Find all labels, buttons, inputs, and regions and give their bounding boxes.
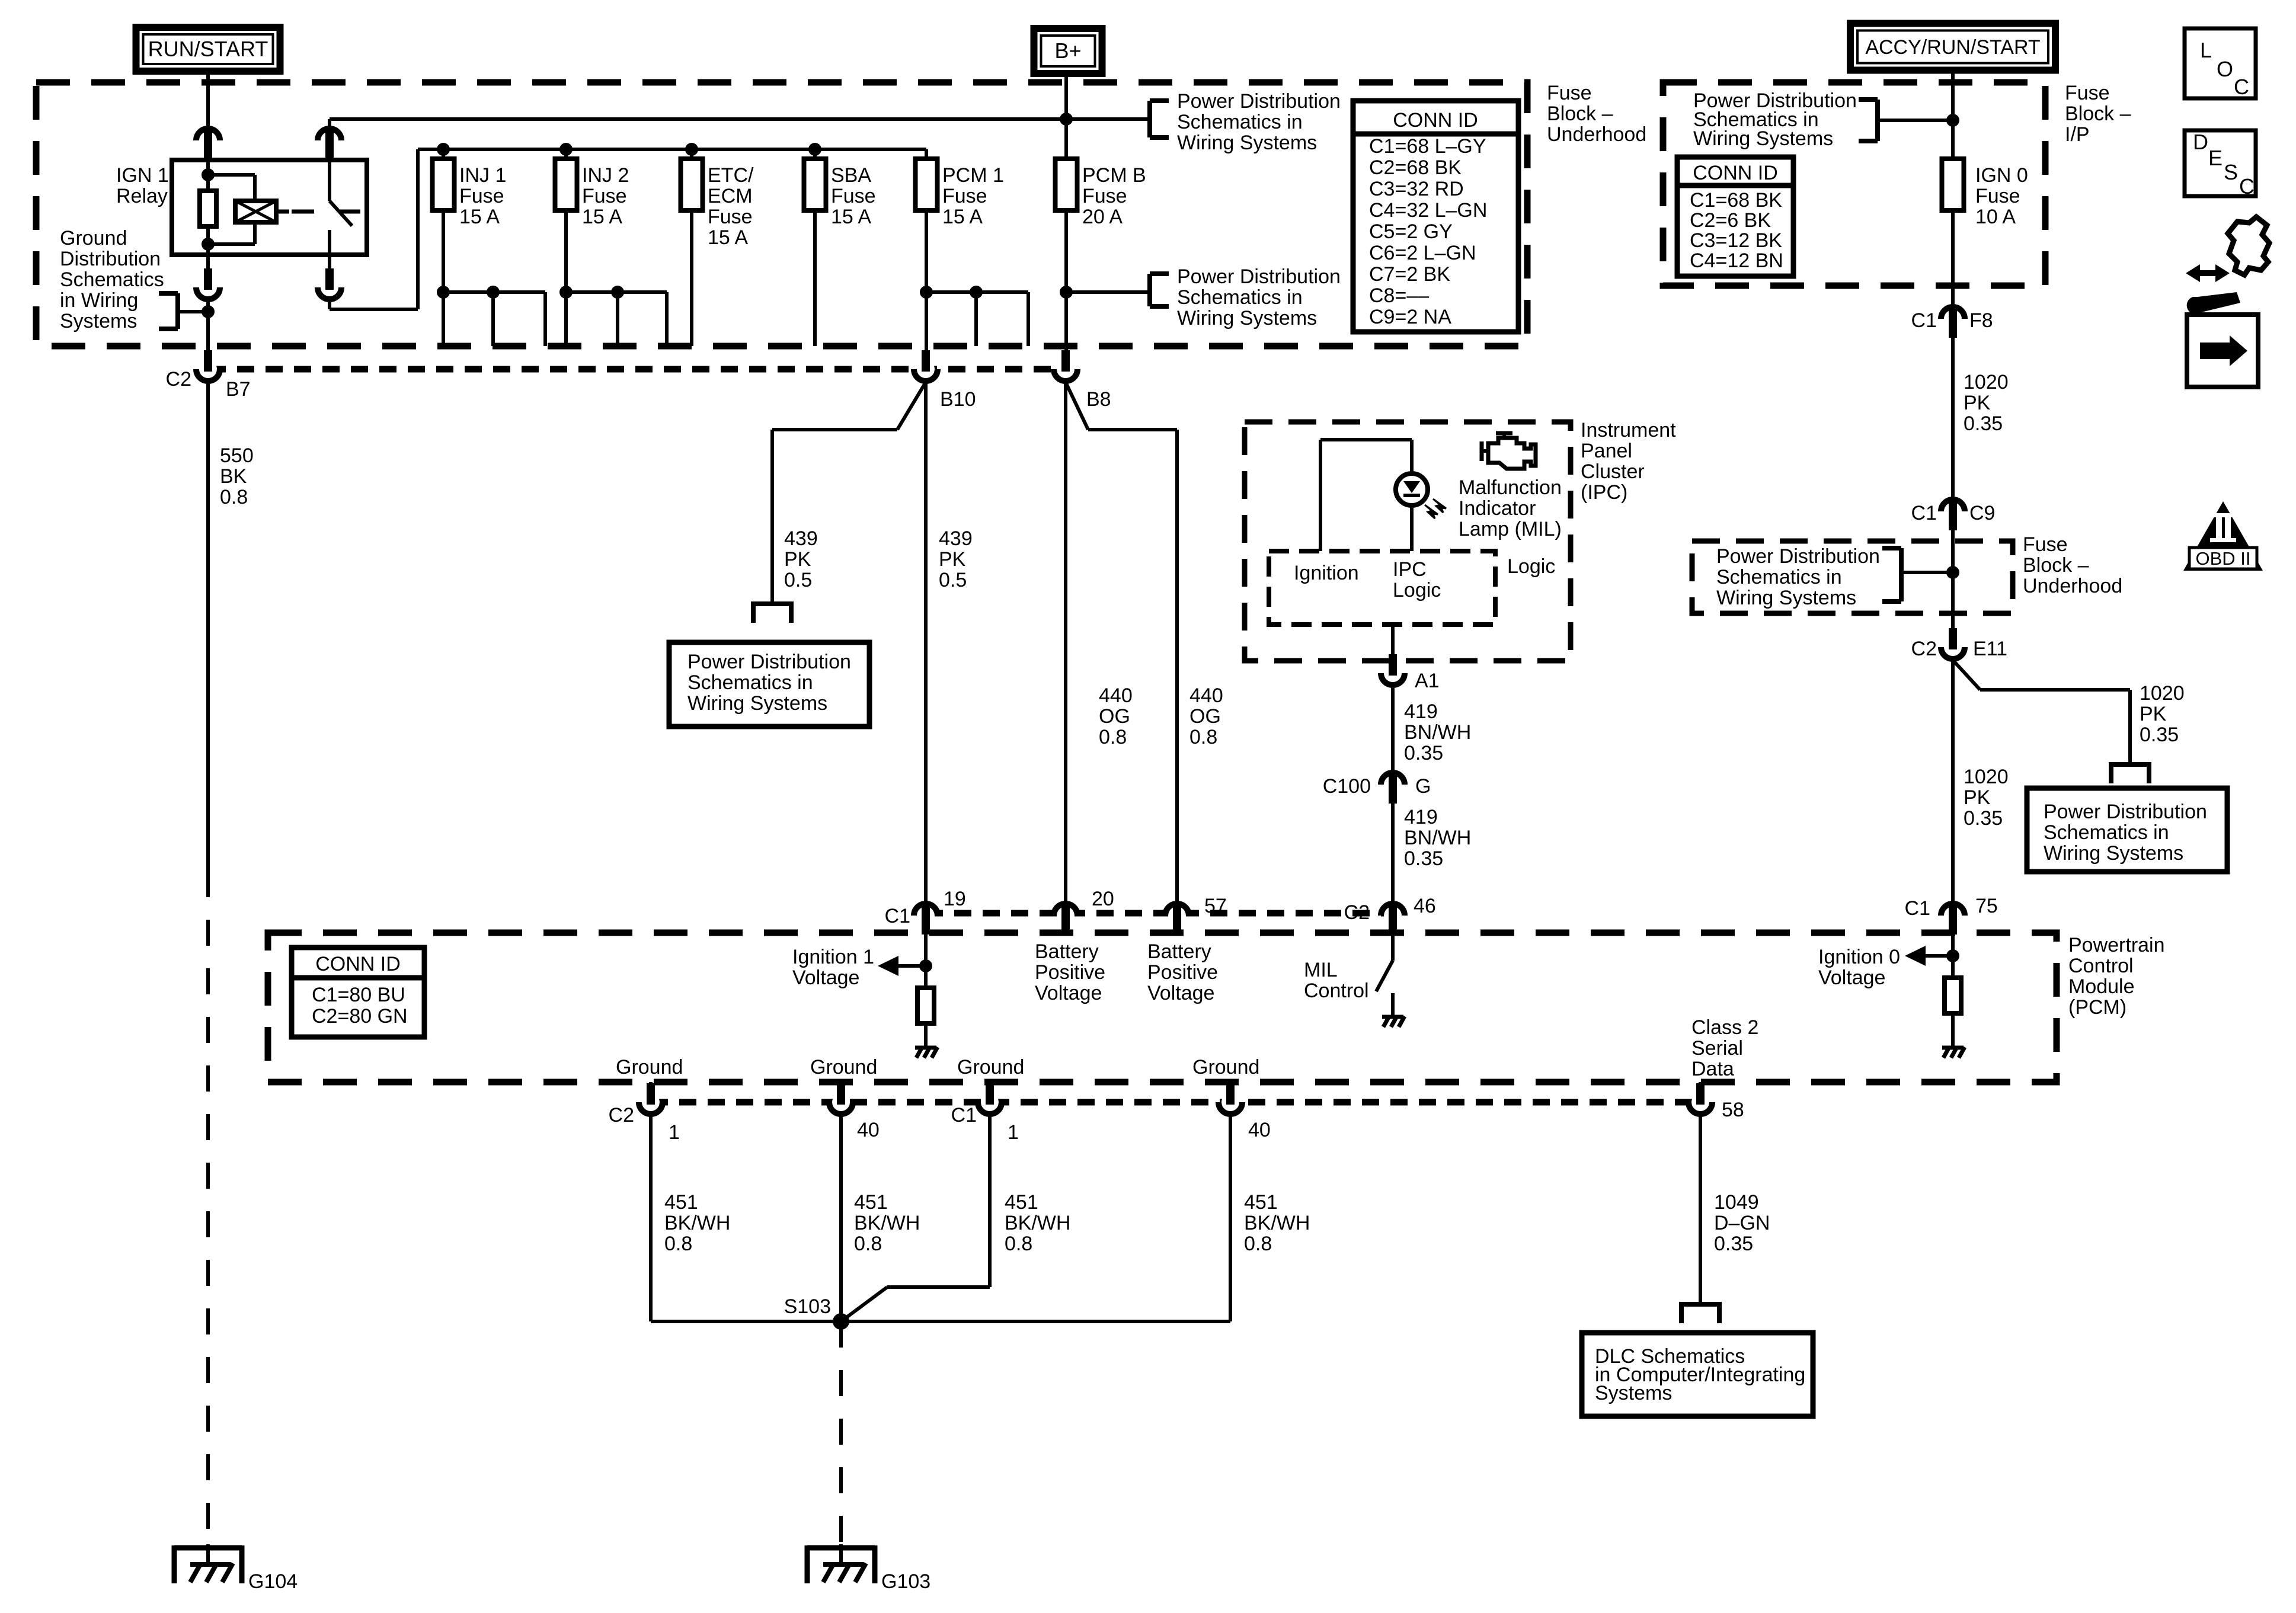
svg-text:Logic: Logic: [1393, 579, 1441, 601]
svg-text:0.8: 0.8: [1189, 726, 1217, 748]
svg-text:40: 40: [857, 1119, 880, 1141]
svg-text:Powertrain: Powertrain: [2068, 934, 2165, 956]
svg-text:L: L: [2200, 38, 2212, 62]
svg-text:Power Distribution: Power Distribution: [1177, 265, 1341, 288]
svg-text:10 A: 10 A: [1975, 206, 2016, 228]
svg-text:Fuse: Fuse: [708, 206, 753, 228]
svg-text:PK: PK: [1964, 392, 1991, 414]
svg-text:C9: C9: [1969, 502, 1995, 524]
svg-text:C2: C2: [1911, 638, 1937, 660]
svg-text:OG: OG: [1099, 705, 1130, 728]
svg-text:OG: OG: [1189, 705, 1221, 728]
svg-text:BK/WH: BK/WH: [854, 1212, 920, 1234]
svg-text:0.5: 0.5: [784, 569, 812, 591]
svg-text:C2=68 BK: C2=68 BK: [1369, 156, 1462, 179]
svg-text:PK: PK: [784, 548, 811, 571]
svg-text:C4=32 L–GN: C4=32 L–GN: [1369, 199, 1487, 222]
svg-text:E: E: [2208, 146, 2223, 170]
svg-text:B8: B8: [1086, 388, 1111, 411]
svg-text:Voltage: Voltage: [792, 966, 859, 989]
svg-text:Block –: Block –: [2023, 554, 2089, 577]
svg-text:Lamp (MIL): Lamp (MIL): [1459, 518, 1562, 540]
svg-text:CONN ID: CONN ID: [315, 953, 401, 975]
svg-text:57: 57: [1204, 895, 1227, 917]
svg-text:1020: 1020: [1964, 766, 2009, 788]
svg-text:0.35: 0.35: [2140, 724, 2179, 746]
svg-text:Systems: Systems: [1595, 1382, 1672, 1404]
svg-text:0.8: 0.8: [1244, 1233, 1272, 1255]
svg-text:IPC: IPC: [1393, 558, 1427, 581]
svg-text:in Wiring: in Wiring: [60, 289, 138, 312]
svg-text:Module: Module: [2068, 975, 2135, 998]
svg-text:Ground: Ground: [60, 227, 127, 249]
svg-text:C: C: [2239, 174, 2255, 199]
svg-text:INJ 2: INJ 2: [582, 164, 629, 187]
svg-text:C4=12 BN: C4=12 BN: [1690, 249, 1783, 272]
svg-text:C6=2 L–GN: C6=2 L–GN: [1369, 242, 1476, 264]
svg-text:C1: C1: [1911, 502, 1937, 524]
svg-text:Wiring Systems: Wiring Systems: [1693, 127, 1833, 150]
svg-text:Relay: Relay: [116, 185, 168, 207]
svg-text:B+: B+: [1054, 39, 1081, 63]
svg-text:Control: Control: [1304, 980, 1369, 1002]
svg-text:Battery: Battery: [1035, 940, 1099, 963]
svg-text:419: 419: [1404, 806, 1438, 828]
svg-text:E11: E11: [1973, 638, 2007, 660]
svg-text:OBD II: OBD II: [2195, 548, 2250, 569]
svg-text:1020: 1020: [2140, 682, 2185, 705]
svg-text:0.35: 0.35: [1714, 1233, 1753, 1255]
svg-text:Voltage: Voltage: [1818, 966, 1885, 989]
svg-text:B10: B10: [940, 388, 976, 411]
svg-text:Underhood: Underhood: [2023, 575, 2122, 597]
svg-text:C1: C1: [1905, 897, 1930, 920]
svg-text:Schematics: Schematics: [60, 268, 164, 291]
svg-text:Power Distribution: Power Distribution: [2044, 801, 2207, 823]
svg-text:Power Distribution: Power Distribution: [1716, 545, 1880, 568]
svg-text:440: 440: [1099, 684, 1133, 707]
svg-text:RUN/START: RUN/START: [148, 37, 268, 61]
svg-text:Ignition 0: Ignition 0: [1818, 946, 1900, 968]
svg-text:PK: PK: [939, 548, 966, 571]
svg-text:B7: B7: [226, 378, 251, 401]
svg-text:Ground: Ground: [957, 1056, 1024, 1078]
svg-text:Malfunction: Malfunction: [1459, 476, 1562, 499]
svg-text:Instrument: Instrument: [1581, 419, 1676, 441]
svg-text:Battery: Battery: [1147, 940, 1211, 963]
svg-text:C3=12 BK: C3=12 BK: [1690, 229, 1782, 252]
svg-text:451: 451: [1244, 1191, 1278, 1214]
svg-text:Fuse: Fuse: [1082, 185, 1127, 207]
svg-text:0.35: 0.35: [1404, 742, 1443, 764]
svg-text:19: 19: [944, 888, 966, 910]
svg-text:15 A: 15 A: [831, 206, 871, 228]
svg-text:C2: C2: [1344, 901, 1370, 924]
svg-text:Schematics in: Schematics in: [2044, 821, 2169, 844]
svg-text:451: 451: [854, 1191, 888, 1214]
svg-text:Fuse: Fuse: [1975, 185, 2020, 207]
svg-text:451: 451: [1005, 1191, 1038, 1214]
svg-text:1: 1: [669, 1121, 680, 1144]
svg-text:MIL: MIL: [1304, 959, 1338, 981]
svg-text:0.35: 0.35: [1964, 412, 2003, 435]
svg-text:F8: F8: [1969, 309, 1993, 332]
svg-text:C1=68 BK: C1=68 BK: [1690, 189, 1782, 212]
svg-text:Schematics in: Schematics in: [1177, 286, 1303, 309]
svg-text:Voltage: Voltage: [1035, 982, 1102, 1004]
svg-text:Wiring Systems: Wiring Systems: [2044, 842, 2183, 865]
svg-text:Wiring Systems: Wiring Systems: [1716, 587, 1856, 609]
svg-text:C2=6 BK: C2=6 BK: [1690, 209, 1771, 232]
svg-text:Fuse: Fuse: [2023, 533, 2068, 556]
svg-text:Ground: Ground: [1192, 1056, 1259, 1078]
svg-text:Schematics in: Schematics in: [1177, 111, 1303, 133]
svg-text:G103: G103: [881, 1570, 930, 1593]
svg-text:46: 46: [1414, 895, 1436, 917]
svg-text:CONN ID: CONN ID: [1693, 162, 1778, 184]
svg-text:40: 40: [1248, 1119, 1271, 1141]
svg-text:0.35: 0.35: [1404, 847, 1443, 870]
svg-text:C1: C1: [885, 905, 910, 927]
svg-text:Fuse: Fuse: [582, 185, 627, 207]
svg-text:Ignition: Ignition: [1294, 562, 1359, 584]
svg-text:Distribution: Distribution: [60, 248, 161, 270]
svg-text:15 A: 15 A: [459, 206, 500, 228]
svg-text:15 A: 15 A: [708, 226, 748, 249]
svg-text:Serial: Serial: [1691, 1037, 1743, 1060]
svg-text:BK/WH: BK/WH: [1244, 1212, 1310, 1234]
svg-text:550: 550: [220, 444, 254, 467]
svg-text:BK/WH: BK/WH: [664, 1212, 730, 1234]
svg-text:BN/WH: BN/WH: [1404, 721, 1471, 744]
svg-text:Schematics in: Schematics in: [687, 671, 813, 694]
svg-text:G104: G104: [248, 1570, 298, 1593]
svg-text:419: 419: [1404, 700, 1438, 723]
svg-text:439: 439: [784, 527, 818, 550]
svg-text:Underhood: Underhood: [1547, 123, 1646, 146]
svg-text:PK: PK: [1964, 786, 1991, 809]
svg-text:C2: C2: [166, 368, 191, 391]
svg-text:Wiring Systems: Wiring Systems: [1177, 132, 1317, 154]
svg-text:O: O: [2217, 57, 2233, 81]
svg-text:ECM: ECM: [708, 185, 753, 207]
svg-text:INJ 1: INJ 1: [459, 164, 506, 187]
svg-text:Fuse: Fuse: [459, 185, 504, 207]
svg-text:Wiring Systems: Wiring Systems: [1177, 307, 1317, 329]
svg-text:15 A: 15 A: [582, 206, 622, 228]
svg-text:ACCY/RUN/START: ACCY/RUN/START: [1865, 36, 2040, 59]
svg-text:Ground: Ground: [810, 1056, 877, 1078]
svg-text:20 A: 20 A: [1082, 206, 1123, 228]
svg-text:Fuse: Fuse: [1547, 82, 1592, 104]
svg-text:SBA: SBA: [831, 164, 871, 187]
svg-text:Class 2: Class 2: [1691, 1016, 1758, 1039]
svg-text:Systems: Systems: [60, 310, 137, 332]
svg-text:C2=80 GN: C2=80 GN: [312, 1005, 408, 1028]
svg-text:15 A: 15 A: [942, 206, 983, 228]
svg-text:Power Distribution: Power Distribution: [687, 651, 851, 673]
svg-text:I/P: I/P: [2065, 123, 2090, 146]
svg-text:Block –: Block –: [2065, 103, 2131, 125]
svg-text:C9=2 NA: C9=2 NA: [1369, 306, 1451, 328]
svg-text:D–GN: D–GN: [1714, 1212, 1770, 1234]
svg-text:20: 20: [1092, 888, 1114, 910]
svg-text:C5=2 GY: C5=2 GY: [1369, 220, 1453, 243]
svg-text:1049: 1049: [1714, 1191, 1759, 1214]
svg-text:1020: 1020: [1964, 371, 2009, 393]
svg-text:0.5: 0.5: [939, 569, 967, 591]
svg-text:Control: Control: [2068, 955, 2134, 977]
svg-text:IGN 0: IGN 0: [1975, 164, 2028, 187]
svg-text:ETC/: ETC/: [708, 164, 754, 187]
svg-text:0.8: 0.8: [1099, 726, 1127, 748]
svg-text:440: 440: [1189, 684, 1223, 707]
svg-text:0.8: 0.8: [1005, 1233, 1032, 1255]
svg-text:A1: A1: [1415, 670, 1440, 692]
svg-text:C7=2 BK: C7=2 BK: [1369, 263, 1450, 286]
svg-text:BK/WH: BK/WH: [1005, 1212, 1070, 1234]
svg-text:S: S: [2224, 160, 2238, 184]
svg-text:C: C: [2234, 75, 2249, 99]
svg-text:Cluster: Cluster: [1581, 460, 1645, 483]
svg-text:G: G: [1415, 775, 1431, 798]
svg-text:C100: C100: [1323, 775, 1371, 798]
svg-text:1: 1: [1008, 1121, 1019, 1144]
svg-text:C8=––: C8=––: [1369, 284, 1429, 307]
svg-text:PCM 1: PCM 1: [942, 164, 1004, 187]
svg-text:S103: S103: [784, 1295, 831, 1318]
svg-text:Panel: Panel: [1581, 440, 1632, 462]
svg-text:IGN 1: IGN 1: [116, 164, 169, 187]
svg-text:Data: Data: [1691, 1058, 1734, 1080]
svg-text:Voltage: Voltage: [1147, 982, 1214, 1004]
svg-text:C1: C1: [1911, 309, 1937, 332]
svg-text:C1=68 L–GY: C1=68 L–GY: [1369, 135, 1486, 158]
svg-text:439: 439: [939, 527, 973, 550]
svg-text:Positive: Positive: [1147, 961, 1218, 984]
svg-text:Ground: Ground: [616, 1056, 683, 1078]
svg-text:CONN ID: CONN ID: [1393, 109, 1478, 132]
svg-text:Wiring Systems: Wiring Systems: [687, 692, 827, 715]
svg-text:PK: PK: [2140, 703, 2167, 725]
svg-text:Positive: Positive: [1035, 961, 1105, 984]
svg-text:BN/WH: BN/WH: [1404, 827, 1471, 849]
svg-text:0.8: 0.8: [220, 486, 248, 508]
svg-text:0.35: 0.35: [1964, 807, 2003, 830]
svg-text:Indicator: Indicator: [1459, 497, 1536, 520]
svg-text:75: 75: [1975, 895, 1998, 917]
svg-text:Fuse: Fuse: [942, 185, 987, 207]
svg-text:PCM B: PCM B: [1082, 164, 1146, 187]
svg-text:Logic: Logic: [1507, 555, 1555, 578]
svg-text:C3=32 RD: C3=32 RD: [1369, 178, 1464, 200]
svg-text:0.8: 0.8: [664, 1233, 692, 1255]
svg-text:Block –: Block –: [1547, 103, 1613, 125]
svg-text:C2: C2: [609, 1104, 634, 1126]
svg-text:C1: C1: [951, 1104, 977, 1126]
svg-text:Fuse: Fuse: [831, 185, 876, 207]
svg-text:BK: BK: [220, 465, 247, 488]
svg-text:Power Distribution: Power Distribution: [1177, 90, 1341, 113]
svg-text:Schematics in: Schematics in: [1716, 566, 1842, 588]
svg-text:0.8: 0.8: [854, 1233, 882, 1255]
svg-text:Ignition 1: Ignition 1: [792, 946, 874, 968]
svg-text:C1=80 BU: C1=80 BU: [312, 984, 405, 1006]
svg-text:(PCM): (PCM): [2068, 996, 2126, 1019]
svg-text:D: D: [2193, 130, 2208, 154]
svg-text:58: 58: [1722, 1099, 1744, 1121]
svg-text:451: 451: [664, 1191, 698, 1214]
svg-text:Fuse: Fuse: [2065, 82, 2110, 104]
svg-text:(IPC): (IPC): [1581, 481, 1627, 504]
